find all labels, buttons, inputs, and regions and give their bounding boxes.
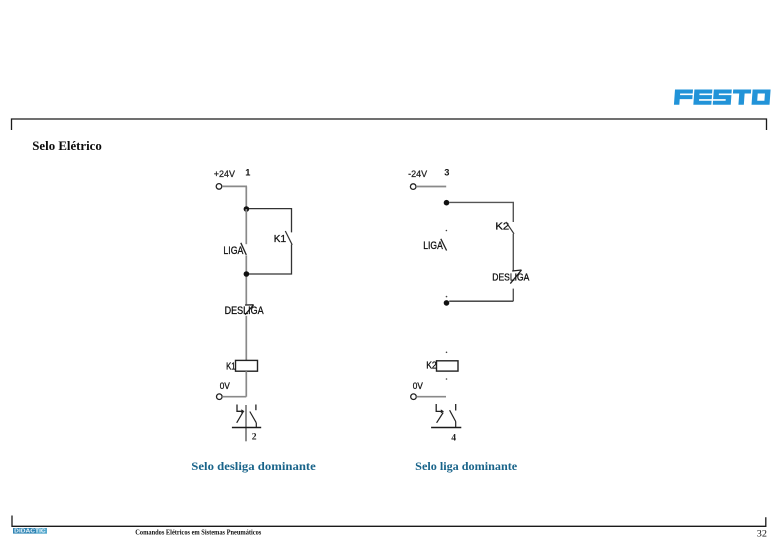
svg-text:1: 1 — [245, 168, 250, 178]
svg-text:+24V: +24V — [214, 169, 235, 179]
svg-text:Selo Elétrico: Selo Elétrico — [32, 139, 102, 153]
svg-text:3: 3 — [444, 168, 449, 178]
svg-text:0V: 0V — [413, 381, 423, 391]
svg-text:0V: 0V — [220, 381, 230, 391]
svg-text:32: 32 — [757, 529, 767, 540]
svg-text:Selo liga dominante: Selo liga dominante — [415, 459, 518, 473]
svg-text:LIGA: LIGA — [223, 245, 244, 257]
svg-text:-24V: -24V — [408, 169, 427, 179]
svg-text:2: 2 — [252, 431, 257, 442]
svg-text:K1: K1 — [274, 234, 287, 245]
svg-text:K2: K2 — [426, 360, 437, 371]
svg-text:Selo desliga dominante: Selo desliga dominante — [191, 459, 316, 473]
svg-text:DESLIGA: DESLIGA — [492, 272, 529, 283]
svg-text:4: 4 — [451, 432, 456, 443]
svg-text:LIGA: LIGA — [423, 240, 443, 252]
svg-text:Comandos Elétricos em Sistemas: Comandos Elétricos em Sistemas Pneumátic… — [135, 528, 261, 537]
svg-text:DIDACTIC: DIDACTIC — [14, 529, 46, 535]
svg-text:DESLIGA: DESLIGA — [225, 305, 265, 317]
svg-text:K1: K1 — [226, 361, 236, 372]
